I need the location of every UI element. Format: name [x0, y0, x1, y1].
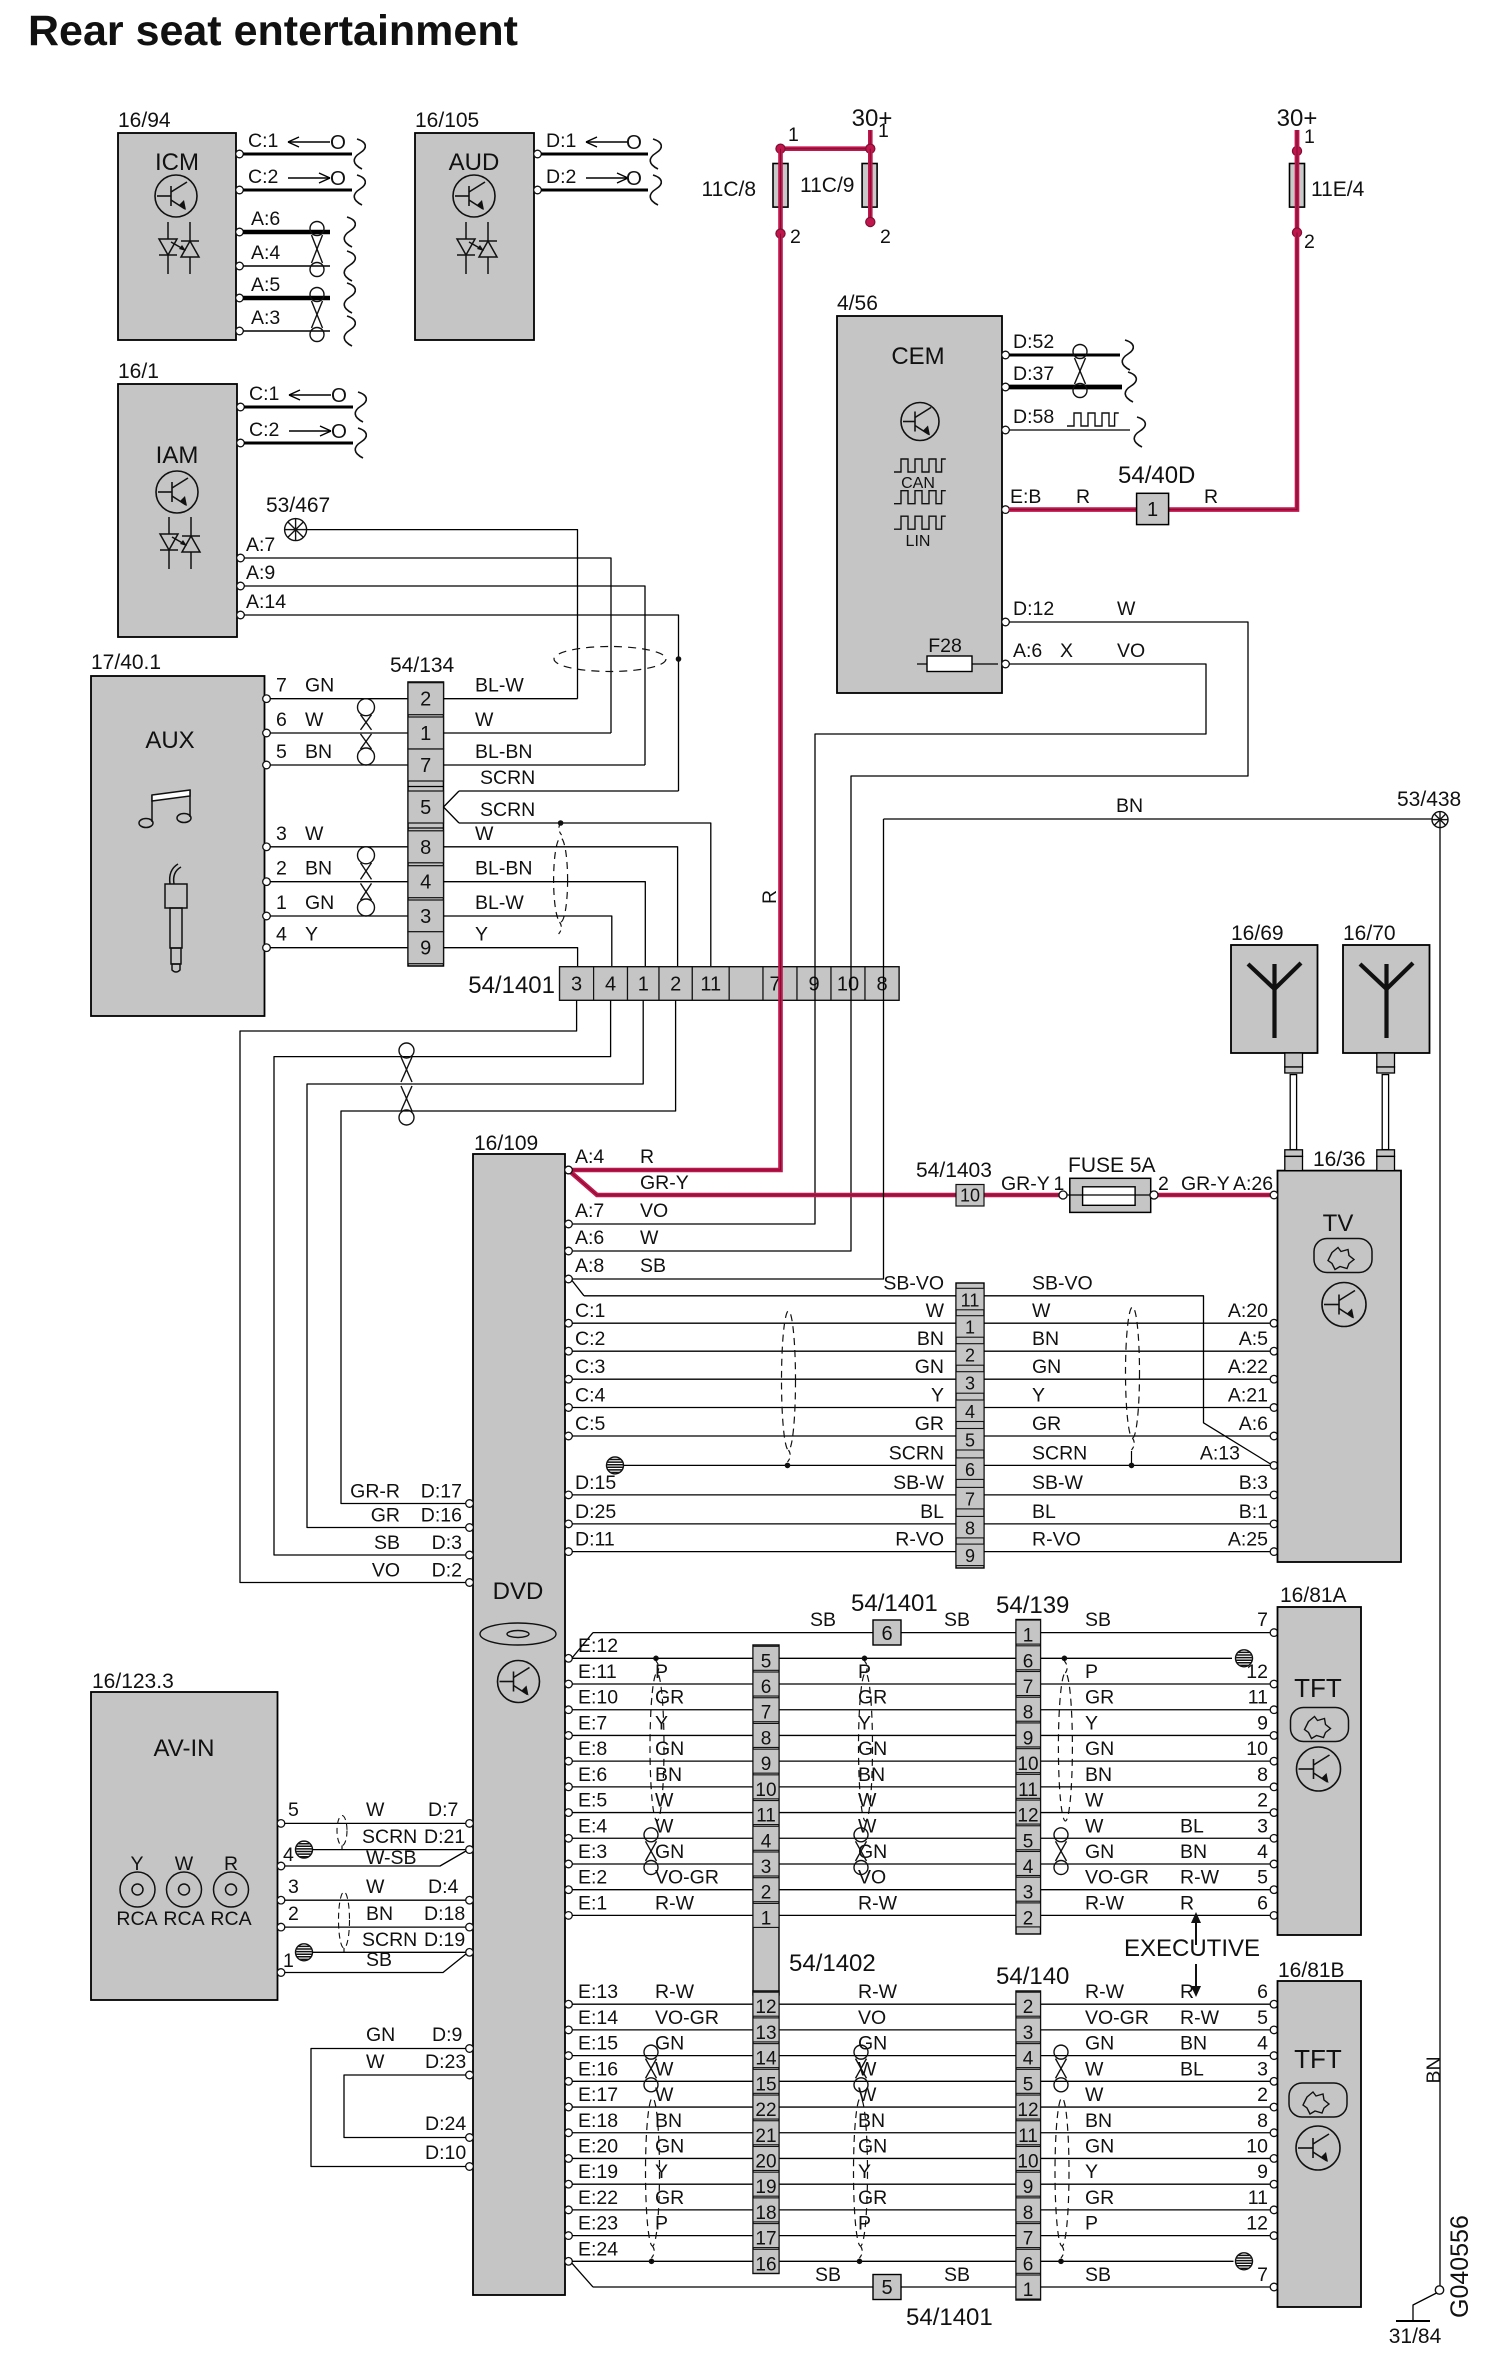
svg-text:BN: BN: [1180, 2033, 1207, 2055]
svg-text:W: W: [640, 1227, 659, 1249]
pin CEM D:37: [1002, 383, 1010, 391]
wire shield drain row from DVD E:12 to ground ball: [572, 1657, 1232, 1659]
shield ellipse 54/1403-TV: [1126, 1307, 1140, 1438]
svg-text:Y: Y: [305, 924, 318, 946]
LIN square wave symbol: [894, 516, 946, 529]
antenna symbol 16/69: [1248, 963, 1301, 1038]
svg-text:SCRN: SCRN: [362, 1826, 417, 1848]
junction dot shield drain right C-section: [1129, 1463, 1135, 1469]
svg-text:2: 2: [1257, 2084, 1268, 2106]
svg-text:Rear seat entertainment: Rear seat entertainment: [28, 7, 518, 55]
svg-text:Y: Y: [655, 2161, 668, 2183]
square wave symbol 2: [894, 491, 946, 504]
pin DVD E:19: [565, 2180, 573, 2188]
wire 54/1401 to 54/139 row BN: [779, 1786, 1016, 1788]
svg-text:D:16: D:16: [421, 1505, 462, 1527]
connector 54/1401 strip cell 11: [753, 1801, 779, 1825]
svg-text:9: 9: [1023, 1728, 1034, 1749]
svg-text:D:3: D:3: [432, 1532, 462, 1554]
svg-text:P: P: [655, 1661, 668, 1683]
svg-text:GN: GN: [655, 2033, 684, 2055]
svg-text:D:17: D:17: [421, 1481, 462, 1503]
pin AV-IN 1: [277, 1969, 285, 1977]
svg-text:E:10: E:10: [578, 1687, 618, 1709]
svg-text:C:1: C:1: [248, 130, 278, 152]
connector 54/1402 strip body: [753, 1991, 779, 2274]
connector 54/134 cell 8: [408, 831, 444, 863]
connector 54/134 cell 2: [408, 683, 444, 715]
connector 54/1403 cell 8: [956, 1516, 984, 1538]
wire 54/134 pin4 BL-BN to 54/1401 cell 1: [444, 882, 646, 966]
connector 54/140 cell 5: [1016, 2069, 1041, 2093]
wire 54/1402 to 54/140 row Y: [779, 2183, 1016, 2185]
shield ground ball AV-IN 1: [296, 1841, 313, 1858]
svg-text:GR: GR: [915, 1413, 944, 1435]
svg-text:SB: SB: [944, 1609, 970, 1631]
pin DVD E:6: [565, 1783, 573, 1791]
wire DVD C:1 to 54/1403 cell 1 (W): [572, 1322, 956, 1324]
svg-text:8: 8: [420, 837, 431, 859]
svg-text:A:26: A:26: [1233, 1173, 1273, 1195]
wire DVD A:8 SB riser to BN ground bus: [572, 819, 884, 1279]
svg-text:9: 9: [1023, 2177, 1034, 2198]
pin TFT 16/81A pin 10: [1270, 1757, 1278, 1765]
steering wheel icon TV: [1314, 1239, 1372, 1273]
svg-text:E:11: E:11: [578, 1661, 617, 1683]
svg-text:BN: BN: [1180, 1841, 1207, 1863]
pin TFT 16/81B pin 8: [1270, 2129, 1278, 2137]
twisted pair CEM D:52/D:37: [1073, 345, 1087, 398]
svg-text:SB: SB: [366, 1949, 392, 1971]
pin TV A:20: [1270, 1319, 1278, 1327]
svg-text:13: 13: [755, 2023, 776, 2044]
svg-text:E:24: E:24: [578, 2238, 618, 2260]
junction dot shield drain at A:14 wire: [676, 656, 682, 662]
optocoupler symbol IAM: [160, 517, 200, 569]
svg-text:GR: GR: [1085, 2187, 1114, 2209]
svg-text:W: W: [305, 823, 324, 845]
wire 54/1401 to 54/139 row VO: [779, 1889, 1016, 1891]
svg-text:1: 1: [283, 1950, 294, 1972]
svg-text:SB-VO: SB-VO: [1032, 1273, 1093, 1295]
wire IAM A:14 to 54/134 pin 5 SCRN: [244, 615, 679, 791]
wire DVD E:14 to 54/1402 strip: [572, 2029, 753, 2031]
red wire 11E/4 pin2 down to 54/40D and CEM E:B: [1009, 233, 1297, 510]
svg-text:2: 2: [1257, 1790, 1268, 1812]
pin TFT 16/81B pin 2: [1270, 2103, 1278, 2111]
junction dot 11E/4 pin 2: [1292, 228, 1301, 237]
svg-text:BN: BN: [1423, 2056, 1445, 2083]
svg-text:A:5: A:5: [251, 274, 280, 296]
wire 54/140 to TFT 16/81B row W: [1041, 2080, 1271, 2082]
connector 54/1403 cell 1: [956, 1316, 984, 1338]
pin AUX 2 (BN): [263, 878, 271, 886]
svg-text:5: 5: [276, 741, 287, 763]
pin IAM C:2: [237, 439, 245, 447]
svg-text:GR: GR: [858, 1687, 887, 1709]
connector 54/139 cell 10: [1016, 1749, 1041, 1773]
pin DVD A:4: [565, 1166, 573, 1174]
svg-text:C:2: C:2: [249, 419, 279, 441]
svg-text:GN: GN: [1032, 1356, 1061, 1378]
wire 54/1402 to 54/140 row R-W: [779, 2003, 1016, 2005]
svg-text:VO: VO: [640, 1200, 668, 1222]
pin TV B:3: [1270, 1491, 1278, 1499]
connector 54/1401 cell 10: [831, 967, 865, 1000]
svg-text:12: 12: [1017, 1806, 1038, 1827]
wire DVD D:15 to 54/1403 cell 7 (SB-W): [572, 1494, 956, 1496]
wire 54/134 pin1 W to IAM A:7 riser: [444, 732, 612, 734]
connector 54/1402 cell 12: [753, 1992, 779, 2016]
svg-text:Y: Y: [858, 1712, 871, 1734]
svg-text:E:4: E:4: [578, 1815, 607, 1837]
svg-text:GN: GN: [858, 2135, 887, 2157]
shield ground ball C-section: [607, 1457, 624, 1474]
connector 54/1401 cell 11: [692, 967, 729, 1000]
svg-text:SCRN: SCRN: [362, 1929, 417, 1951]
svg-text:11: 11: [1248, 2187, 1268, 2209]
svg-text:11: 11: [1018, 2126, 1038, 2147]
svg-text:G040556: G040556: [1446, 2215, 1474, 2318]
pin DVD E:2: [565, 1886, 573, 1894]
loop wire DVD D:9 to D:10: [311, 2049, 466, 2167]
connector 54/1401 cell 8: [865, 967, 899, 1000]
svg-text:8: 8: [1257, 1764, 1268, 1786]
svg-text:D:25: D:25: [575, 1501, 616, 1523]
connector 54/139 cell 11: [1016, 1774, 1041, 1798]
connector 54/1401 strip cell 3: [753, 1852, 779, 1876]
svg-text:6: 6: [1023, 1651, 1034, 1672]
wire 54/1403 cell 7 to TV B:3 (SB-W): [984, 1494, 1270, 1496]
svg-text:7: 7: [761, 1703, 772, 1724]
svg-text:R: R: [759, 890, 781, 904]
svg-text:R-W: R-W: [655, 1981, 695, 2003]
wire DVD E:1 to 54/1401 strip: [572, 1914, 753, 1916]
pin AUX 5 (BN): [263, 761, 271, 769]
svg-text:GR: GR: [1032, 1413, 1061, 1435]
svg-text:GN: GN: [1085, 2033, 1114, 2055]
wire DVD C:4 to 54/1403 cell 4 (Y): [572, 1407, 956, 1409]
wire DVD E:10 to 54/1401 strip: [572, 1709, 753, 1711]
wire 54/1403 cell 2 to TV A:5 (BN): [984, 1350, 1270, 1352]
svg-text:BL-BN: BL-BN: [475, 741, 532, 763]
svg-text:BL: BL: [1180, 2058, 1204, 2080]
svg-text:11: 11: [1018, 1780, 1038, 1801]
optocoupler symbol AUD: [457, 222, 497, 274]
connector 54/139 cell 5: [1016, 1826, 1041, 1850]
connector 54/140 cell 1: [1016, 2275, 1041, 2299]
connector 54/140 cell 4: [1016, 2044, 1041, 2068]
svg-text:W: W: [1085, 2058, 1104, 2080]
wire ICM A:5: [243, 296, 330, 301]
wire IAM C:1 with arrow: [289, 394, 331, 396]
svg-text:17: 17: [755, 2229, 776, 2250]
svg-text:20: 20: [755, 2151, 776, 2172]
connector 54/1401 vertical strip body (upper): [753, 1645, 779, 1995]
svg-text:10: 10: [1246, 2135, 1268, 2157]
svg-text:11C/8: 11C/8: [702, 178, 756, 201]
pin AUX 6 (W): [263, 729, 271, 737]
connector 54/134 cell 4: [408, 866, 444, 898]
svg-text:16/81B: 16/81B: [1278, 1959, 1345, 1982]
svg-text:BN: BN: [366, 1903, 393, 1925]
pin DVD E:4: [565, 1834, 573, 1842]
disc icon: [480, 1623, 556, 1645]
svg-text:A:6: A:6: [575, 1227, 604, 1249]
wire 54/1401 cell2 to DVD D:17 (GR-R): [341, 1000, 676, 1503]
connector 54/1402 cell 18: [753, 2198, 779, 2222]
shield ellipse TFT-A col1: [650, 1673, 664, 1821]
pin TV A:21: [1270, 1404, 1278, 1412]
svg-text:E:12: E:12: [578, 1635, 618, 1657]
svg-text:O: O: [330, 131, 346, 154]
wire AUX pin 3 to 54/134: [270, 846, 408, 848]
wire DVD C:2 to 54/1403 cell 2 (BN): [572, 1350, 956, 1352]
red wire 30+ to fuse 11C/9: [868, 130, 873, 164]
pin AUD D:1: [534, 150, 542, 158]
svg-text:A:7: A:7: [575, 1200, 604, 1222]
svg-text:4: 4: [605, 974, 616, 996]
connector 54/1401 strip cell 2: [753, 1878, 779, 1902]
svg-text:R: R: [1204, 486, 1218, 508]
connector 54/140 cell 3: [1016, 2018, 1041, 2042]
red wire GR-Y from DVD A:4 to FUSE 5A: [570, 1172, 1060, 1196]
pin IAM A:7: [237, 554, 245, 562]
svg-text:3: 3: [1257, 2058, 1268, 2080]
svg-text:4: 4: [1023, 2049, 1034, 2070]
svg-text:E:22: E:22: [578, 2187, 618, 2209]
svg-text:11: 11: [700, 974, 721, 996]
svg-text:BN: BN: [917, 1328, 944, 1350]
red wire jumper 11C/9 pin1 to 11C/8 pin1: [781, 146, 871, 151]
wire 54/139 to TFT 16/81A row BN: [1041, 1786, 1271, 1788]
wire 54/134 pin9 Y to 54/1401 cell 3: [444, 948, 578, 966]
svg-text:W: W: [1085, 1790, 1104, 1812]
pin ICM A:3: [236, 327, 244, 335]
connector 54/1401 strip cell 5: [753, 1646, 779, 1670]
svg-text:4: 4: [420, 872, 431, 894]
svg-text:F28: F28: [928, 635, 962, 657]
wire 54/1402 to 54/140 row P: [779, 2235, 1016, 2237]
svg-text:E:20: E:20: [578, 2135, 618, 2157]
pin DVD D:9: [466, 2045, 474, 2053]
ground 31/84: [1435, 2286, 1443, 2294]
steering wheel icon TFT-B: [1289, 2083, 1347, 2117]
svg-text:RCA: RCA: [116, 1908, 157, 1930]
wire DVD D:11 to 54/1403 cell 9 (R-VO): [572, 1551, 956, 1553]
svg-text:7: 7: [965, 1489, 975, 1509]
junction dot SCRN shield drain: [558, 820, 564, 826]
svg-text:A:7: A:7: [246, 534, 275, 556]
pin AUX 1 (GN): [263, 912, 271, 920]
svg-text:D:11: D:11: [575, 1529, 615, 1551]
svg-text:VO: VO: [372, 1560, 400, 1582]
svg-text:54/1401: 54/1401: [851, 1590, 938, 1617]
pin TFT 16/81B pin 5: [1270, 2026, 1278, 2034]
svg-text:2: 2: [1158, 1173, 1169, 1195]
antenna 16/70 box: [1343, 945, 1430, 1053]
svg-text:1: 1: [965, 1318, 975, 1338]
pin IAM A:9: [237, 582, 245, 590]
connector 54/1402 cell 15: [753, 2069, 779, 2093]
svg-text:16/1: 16/1: [118, 360, 159, 383]
wire DVD E:3 to 54/1401 strip: [572, 1863, 753, 1865]
pin TFT 16/81B pin 12: [1270, 2232, 1278, 2240]
svg-text:VO-GR: VO-GR: [1085, 2007, 1149, 2029]
svg-text:3: 3: [1023, 1883, 1034, 1904]
svg-text:BN: BN: [1085, 1764, 1112, 1786]
svg-text:W: W: [858, 1790, 877, 1812]
connector 54/1403 strip body: [956, 1283, 984, 1568]
wire DVD E:17 to 54/1402 strip: [572, 2106, 753, 2108]
shield ellipse TFT-B col2: [854, 2098, 868, 2246]
wire 54/1403 cell 8 to TV B:1 (BL): [984, 1523, 1270, 1525]
wire 54/139 to TFT 16/81A row VO-GR: [1041, 1889, 1271, 1891]
svg-text:C:4: C:4: [575, 1385, 606, 1407]
wire SB row upper (box to 54/139 cell 1): [901, 1632, 1016, 1634]
svg-text:GR: GR: [371, 1505, 400, 1527]
pin DVD D:21: [466, 1846, 474, 1854]
twisted pair TFT-B col3: [1054, 2045, 1068, 2092]
svg-text:BL-BN: BL-BN: [475, 858, 532, 880]
pin TFT 16/81B pin 6: [1270, 2000, 1278, 2008]
wire DVD E:8 to 54/1401 strip: [572, 1760, 753, 1762]
junction dot 11C/9 pin 1: [866, 144, 875, 153]
square wave signal symbol D:58: [1067, 413, 1119, 426]
svg-text:E:3: E:3: [578, 1841, 607, 1863]
wire 54/1403 cell 1 to TV A:20 (W): [984, 1322, 1270, 1324]
wire 54/140 to TFT 16/81B row W: [1041, 2106, 1271, 2108]
pin TV A:5: [1270, 1347, 1278, 1355]
svg-text:C:2: C:2: [248, 166, 278, 188]
connector 54/139 cell 4: [1016, 1851, 1041, 1875]
pin AUD D:2: [534, 186, 542, 194]
pin DVD E:20: [565, 2155, 573, 2163]
svg-text:54/1403: 54/1403: [916, 1159, 992, 1182]
pin DVD D:10: [466, 2163, 474, 2171]
wire CEM D:37 (very thick): [1009, 385, 1122, 390]
svg-text:B:1: B:1: [1239, 1501, 1268, 1523]
wire DVD E:7 to 54/1401 strip: [572, 1734, 753, 1736]
component AUX 17/40.1 box: [91, 676, 265, 1016]
svg-text:ICM: ICM: [155, 149, 199, 176]
pin TV A:22: [1270, 1375, 1278, 1383]
svg-text:W: W: [655, 2058, 674, 2080]
svg-text:GR: GR: [858, 2187, 887, 2209]
wire 54/1402 to 54/140 row: [779, 2260, 1016, 2262]
connector 54/139 cell 2: [1016, 1903, 1041, 1927]
connector 54/140 strip body: [1016, 1991, 1041, 2300]
svg-text:O: O: [330, 167, 346, 190]
svg-text:3: 3: [761, 1857, 772, 1878]
svg-text:11: 11: [756, 1806, 776, 1827]
wire 54/140 to TFT 16/81B row GN: [1041, 2055, 1271, 2057]
svg-text:RCA: RCA: [210, 1908, 251, 1930]
svg-text:Y: Y: [858, 2161, 871, 2183]
svg-text:5: 5: [965, 1431, 975, 1451]
svg-text:8: 8: [876, 974, 887, 996]
wire 54/1401 to 54/139 row Y: [779, 1734, 1016, 1736]
svg-text:11: 11: [1248, 1687, 1268, 1709]
junction dot 11C/8 pin 2: [776, 229, 785, 238]
svg-text:SB: SB: [815, 2264, 841, 2286]
antenna 16/69 box: [1231, 945, 1318, 1053]
svg-text:3: 3: [965, 1374, 975, 1394]
svg-text:TFT: TFT: [1294, 1673, 1342, 1703]
shield ellipse over IAM harness: [554, 647, 666, 672]
svg-text:9: 9: [1257, 1712, 1268, 1734]
svg-text:Y: Y: [931, 1385, 944, 1407]
svg-text:VO-GR: VO-GR: [1085, 1867, 1149, 1889]
wire SCRN from ground ball to 54/1403 cell 6: [624, 1464, 957, 1466]
svg-text:W: W: [475, 709, 494, 731]
svg-text:P: P: [1085, 1661, 1098, 1683]
svg-text:SB-W: SB-W: [893, 1472, 945, 1494]
svg-text:VO: VO: [858, 1867, 886, 1889]
wire AV-IN 1 SB to DVD D:19 (diagonal): [285, 1954, 467, 1973]
svg-text:D:58: D:58: [1013, 406, 1054, 428]
junction dot drain col1 lower: [649, 2259, 655, 2265]
wire 54/140 to TFT 16/81B row: [1041, 2260, 1234, 2262]
wire SB-VO from 54/1403 cell 11 to TV A:13 (corner path): [984, 1296, 1271, 1464]
pin DVD E:3: [565, 1860, 573, 1868]
wire 54/1403 cell 4 to TV A:21 (Y): [984, 1407, 1270, 1409]
connector 54/139 cell 3: [1016, 1877, 1041, 1901]
junction dot 11C/8 pin 1: [776, 144, 785, 153]
svg-text:R-VO: R-VO: [1032, 1529, 1081, 1551]
wire BN down right side to 31/84: [1439, 828, 1441, 2286]
wire 54/139 to TFT 16/81A row W: [1041, 1837, 1271, 1839]
pin AUX 3 (W): [263, 843, 271, 851]
pin DVD D:2: [466, 1579, 474, 1587]
connector 54/1401 cell 9: [797, 967, 831, 1000]
svg-text:3: 3: [1257, 1815, 1268, 1837]
wire 54/139 to TFT 16/81A row Y: [1041, 1734, 1271, 1736]
svg-text:R-W: R-W: [1085, 1981, 1125, 2003]
connector 54/1403 cell 2: [956, 1344, 984, 1366]
svg-text:17/40.1: 17/40.1: [91, 651, 161, 674]
svg-text:12: 12: [1017, 2100, 1038, 2121]
svg-text:E:2: E:2: [578, 1867, 607, 1889]
connector 54/1401 cell 5 (inline box): [873, 2275, 901, 2300]
svg-text:E:16: E:16: [578, 2058, 618, 2080]
svg-text:6: 6: [1257, 1981, 1268, 2003]
pin DVD E:17: [565, 2103, 573, 2111]
wire SB row lower (54/140 to TFT-B pin 7): [1041, 2286, 1271, 2288]
pin DVD E:5: [565, 1809, 573, 1817]
pin TFT 16/81B pin 9: [1270, 2180, 1278, 2188]
transistor symbol TFT-B: [1296, 2126, 1340, 2170]
svg-text:2: 2: [1023, 1908, 1034, 1929]
pin IAM A:14: [237, 611, 245, 619]
svg-text:R-W: R-W: [655, 1892, 695, 1914]
pin CEM E:B: [1002, 506, 1010, 514]
component TFT 16/81A box: [1278, 1607, 1362, 1935]
pin DVD A:7: [565, 1220, 573, 1228]
transistor symbol TV: [1322, 1283, 1366, 1327]
svg-text:6: 6: [1023, 2254, 1034, 2275]
svg-text:4: 4: [1257, 1841, 1268, 1863]
svg-text:8: 8: [761, 1728, 772, 1749]
wire AUX pin 6 to 54/134: [270, 732, 408, 734]
svg-text:O: O: [331, 420, 347, 443]
pin DVD D:19: [466, 1949, 474, 1957]
svg-text:CAN: CAN: [901, 475, 935, 492]
svg-text:22: 22: [755, 2100, 776, 2121]
svg-text:5: 5: [881, 2277, 892, 2299]
svg-text:E:18: E:18: [578, 2110, 618, 2132]
svg-text:5: 5: [1257, 1867, 1268, 1889]
